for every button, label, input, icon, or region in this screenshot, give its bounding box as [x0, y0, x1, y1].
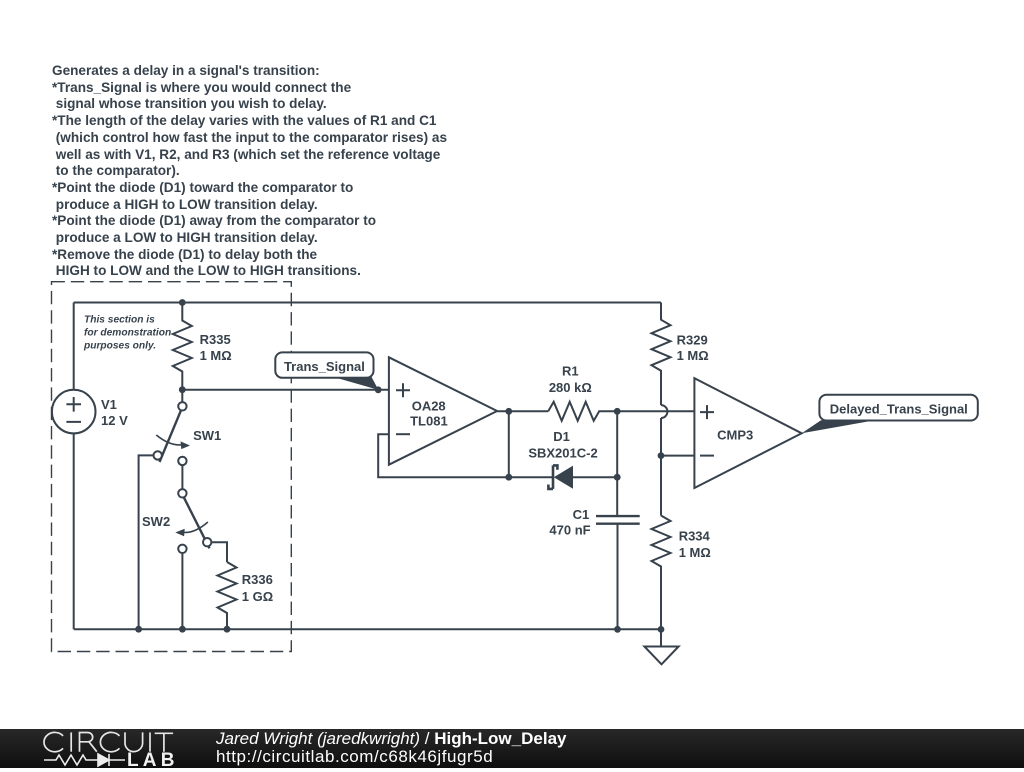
logo LAB: [127, 750, 179, 772]
junction node Trans_Signal: [375, 386, 382, 393]
junction ground node: [658, 626, 665, 633]
svg-text:SW2: SW2: [142, 514, 170, 529]
wire SW2 left leg down: [181, 553, 183, 629]
wire mid horizontal to op-amp: [182, 389, 389, 391]
dashed demonstration box: [52, 282, 292, 652]
junction CMP3 minus: [658, 452, 665, 459]
bottom credit bar: [0, 729, 1024, 768]
svg-text:R334: R334: [679, 529, 711, 544]
junction SW1 leg bottom: [135, 626, 142, 633]
wire V1 bottom: [73, 434, 75, 630]
resistor R334: [652, 516, 671, 630]
switch SW2: [175, 489, 211, 553]
resistor R335: [173, 303, 192, 390]
junction C1 bottom: [614, 626, 621, 633]
junction feedback / D1 cathode: [505, 474, 512, 481]
resistor R329: [652, 303, 671, 406]
wire SW2 to R336: [211, 542, 227, 562]
credit line 2: [216, 747, 493, 767]
note this section demo: [83, 315, 171, 352]
logo CIRCUIT wordmark: [40, 728, 180, 756]
svg-text:V1: V1: [101, 397, 117, 412]
svg-text:1 GΩ: 1 GΩ: [242, 589, 273, 604]
wire SW1 left leg: [139, 455, 154, 629]
logo resistor-diode glyph: [42, 750, 142, 770]
wire OA28 feedback loop: [378, 411, 509, 477]
svg-text:This section is: This section is: [84, 315, 155, 326]
resistor R1: [548, 402, 617, 421]
voltage source V1: [52, 390, 96, 434]
svg-text:280 kΩ: 280 kΩ: [549, 380, 592, 395]
junction SW2 leg bottom: [179, 626, 186, 633]
junction R335 bottom / SW1: [179, 386, 186, 393]
svg-text:SBX201C-2: SBX201C-2: [528, 445, 597, 460]
svg-text:SW1: SW1: [193, 428, 221, 443]
svg-text:R329: R329: [677, 332, 708, 347]
svg-text:R1: R1: [562, 364, 579, 379]
svg-text:purposes only.: purposes only.: [83, 341, 156, 352]
wire bottom horizontal: [74, 628, 661, 630]
junction OA28 output: [505, 408, 512, 415]
flag Trans_Signal: [275, 352, 378, 390]
wire OA28 output: [497, 410, 548, 412]
svg-text:1 MΩ: 1 MΩ: [677, 348, 709, 363]
wire SW1 to SW2: [181, 465, 183, 489]
junction R336 bottom: [224, 626, 231, 633]
capacitor C1: [596, 516, 640, 629]
wire top horizontal: [74, 302, 661, 304]
svg-text:OA28: OA28: [412, 399, 446, 414]
svg-text:Trans_Signal: Trans_Signal: [284, 359, 365, 374]
junction R335 top: [179, 299, 186, 306]
junction D1 anode / C1 top: [614, 474, 621, 481]
switch SW1: [154, 390, 191, 465]
credit line 1: [216, 729, 566, 749]
svg-text:Delayed_Trans_Signal: Delayed_Trans_Signal: [830, 402, 968, 417]
wire node vertical x617: [616, 411, 618, 516]
svg-text:12 V: 12 V: [101, 413, 128, 428]
svg-text:C1: C1: [573, 507, 590, 522]
wire hop over plus wire: [661, 405, 667, 418]
comparator CMP3: [694, 378, 801, 488]
diode D1 (Schottky): [509, 465, 617, 489]
svg-text:470 nF: 470 nF: [549, 522, 590, 537]
svg-text:D1: D1: [553, 429, 570, 444]
svg-text:R335: R335: [200, 332, 231, 347]
wire R1 to CMP3 plus: [617, 410, 694, 412]
svg-text:CMP3: CMP3: [717, 428, 753, 443]
wire R329 to R334: [660, 418, 662, 516]
svg-text:TL081: TL081: [410, 413, 448, 428]
annotation text block: [52, 63, 447, 280]
op-amp OA28: [389, 357, 497, 464]
svg-text:for demonstration: for demonstration: [84, 328, 171, 339]
svg-text:1 MΩ: 1 MΩ: [200, 348, 232, 363]
flag Delayed_Trans_Signal: [802, 395, 978, 433]
junction R1 right: [614, 408, 621, 415]
ground: [644, 629, 678, 664]
wire CMP3 minus: [661, 455, 694, 457]
resistor R336: [218, 562, 237, 629]
svg-text:1 MΩ: 1 MΩ: [679, 545, 711, 560]
svg-text:R336: R336: [242, 572, 273, 587]
wire V1 top stub: [73, 303, 75, 390]
